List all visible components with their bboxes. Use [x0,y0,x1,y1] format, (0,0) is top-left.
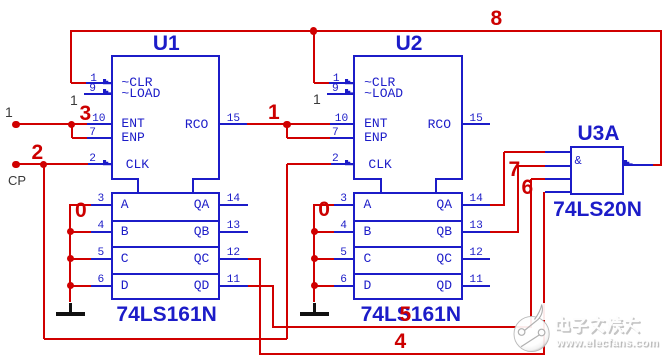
U1 pin names [121,76,152,89]
U3A designator label [577,123,619,144]
U1 pin 15 RCO stub [220,123,248,125]
U1 pin 14 output QA stub [220,204,248,206]
wire net 8 from gate output [653,164,662,166]
U1 pin 5 input C stub [91,258,112,260]
U1 pin 2 CLK stub [88,163,112,165]
U2 C / QC labels [364,252,372,265]
net 0 label at U2 [318,199,330,220]
U2 pin 11 output QD stub [462,285,490,287]
constant-1 label at U1 ~LOAD [70,93,78,107]
net 8 label [491,8,503,29]
U1 C / QC labels [121,252,129,265]
U1 pin 12 output QC stub [220,258,248,260]
wire net 8 right edge drop to gate output [660,31,662,165]
ground symbol below U1 [69,303,71,313]
wire net 8 drop to U2 ~CLR [313,31,315,83]
junction dot net 1 [283,121,290,128]
U1 pin 3 input A stub [91,204,112,206]
wire net 2: CP to U1 CLK and U2 CLK [16,163,88,165]
U3A & symbol [575,154,582,168]
U1 lower box row dividers [113,220,219,222]
wire net 8 drop to U1 ~CLR [70,31,72,83]
IC U2 74LS161N upper box [353,55,463,180]
watermark logo (elecfans) [506,298,560,356]
U2 pin 12 output QC stub [462,258,490,260]
net 1 label [268,102,280,123]
label 1 (terminal) [5,105,13,119]
U2 pin 10 ENT stub [330,123,355,125]
U1 B / QB labels [121,225,129,238]
IC U1 74LS161N upper box [111,55,221,180]
net 4 label [395,331,407,352]
U2 part label 74LS161N [361,304,461,325]
wire net 6: U2 QB to U3A input B [490,231,519,233]
constant-1 label at U2 ~LOAD [313,92,321,106]
U1 part label 74LS161N [116,304,216,325]
U1 D / QD labels [121,279,129,292]
junction dot net 2 [40,161,47,168]
junction dot net 8 / U2 branch [310,27,317,34]
U1 lower box [111,192,221,300]
U2 pin 6 input D stub [334,285,355,287]
wire net 0: U1 data inputs A-D tie-down [69,205,71,303]
U2 B / QB labels [364,225,372,238]
U1 pin 10 ENT stub [87,123,112,125]
wire net 1: U1 RCO to U2 ENT/ENP [247,123,330,125]
U3A input stubs [545,151,571,153]
U1 designator label [153,33,180,54]
U2 pin 9 ~LOAD stub [327,93,355,95]
net 5 label [400,304,412,325]
wire net 3: terminal 1 to U1 ENT/ENP [16,123,87,125]
watermark url text [556,337,659,349]
U2 A / QA labels [364,198,372,211]
U2 section connector tabs [380,179,382,193]
junction dots on U1 net 0 [67,228,74,235]
junction dots on U2 net 0 [311,228,318,235]
U2 lower box row dividers [355,220,461,222]
U3A output stub [623,164,653,166]
U2 pin names [364,76,395,89]
U2 D / QD labels [364,279,372,292]
ground symbol below U2 [313,303,315,313]
U1 pin 6 input D stub [91,285,112,287]
gate U3A 74LS20N box [570,146,625,195]
net 7 label [509,159,521,180]
net 2 label [32,142,44,163]
junction dot net 3 [68,121,75,128]
net 6 label [522,177,534,198]
U2 pin 13 output QB stub [462,231,490,233]
U2 pin 15 RCO stub [462,123,490,125]
U2 lower box [353,192,463,300]
input terminal 1 (logic high) [12,121,19,128]
U2 pin 14 output QA stub [462,204,490,206]
U2 pin 7 ENP stub [330,137,355,139]
wire net 5: U1 QD to U3A input C [247,285,274,287]
U1 A / QA labels [121,198,129,211]
U2 designator label [396,33,423,54]
U2 pin 3 input A stub [334,204,355,206]
net 0 label at U1 [75,200,87,221]
input terminal CP [12,161,19,168]
U2 pin 2 CLK stub [331,163,355,165]
U1 pin 1 ~CLR stub [86,82,112,84]
U3A part label 74LS20N [553,199,642,220]
U1 section connector tabs [137,179,139,193]
wire net 7: U2 QA to U3A input A [490,204,505,206]
U1 pin 13 output QB stub [220,231,248,233]
U3A output marker [624,160,634,167]
U2 pin 1 ~CLR stub [329,82,355,84]
U2 pin 5 input C stub [334,258,355,260]
label CP [8,174,26,188]
U1 pin 11 output QD stub [220,285,248,287]
wire net 0: U2 data inputs A-D tie-down [313,205,315,303]
wire net 8: reset line along top [70,30,662,32]
U2 pin 4 input B stub [334,231,355,233]
watermark chinese text 电子发烧友 [554,314,649,340]
wire net 4: U1 QC to U3A input D [247,258,260,260]
U1 pin 9 ~LOAD stub [84,93,112,95]
net 3 label [80,103,92,124]
U1 pin 4 input B stub [91,231,112,233]
U1 pin 7 ENP stub [87,137,112,139]
